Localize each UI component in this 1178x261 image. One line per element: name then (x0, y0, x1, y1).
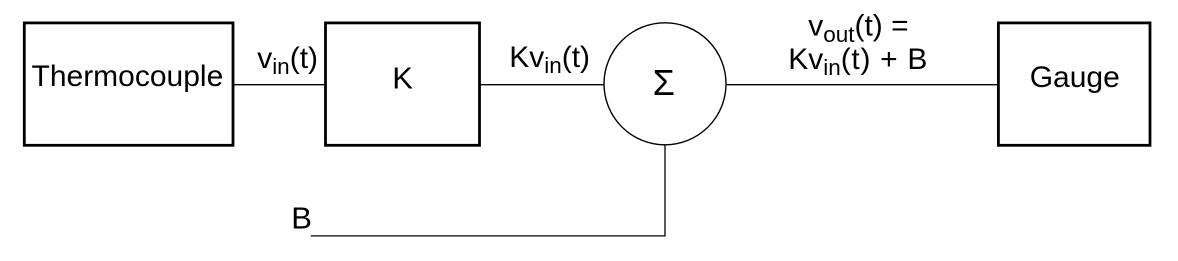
svg-text:vout(t) =: vout(t) = (808, 10, 908, 47)
svg-text:Kvin(t): Kvin(t) (509, 41, 590, 78)
wire (233, 84, 326, 86)
svg-text:B: B (291, 200, 312, 235)
summing junction (604, 23, 726, 145)
block K (326, 23, 480, 145)
bias wire (311, 145, 665, 236)
svg-text:vin(t): vin(t) (257, 42, 318, 79)
svg-text:Σ: Σ (653, 62, 675, 103)
block Thermocouple (24, 23, 233, 145)
block Gauge (998, 23, 1150, 145)
svg-text:K: K (392, 60, 413, 95)
wire (480, 84, 605, 86)
svg-text:Thermocouple: Thermocouple (32, 60, 224, 93)
svg-text:Kvin(t) + B: Kvin(t) + B (788, 43, 928, 80)
wire (726, 84, 998, 86)
svg-text:Gauge: Gauge (1030, 61, 1120, 94)
